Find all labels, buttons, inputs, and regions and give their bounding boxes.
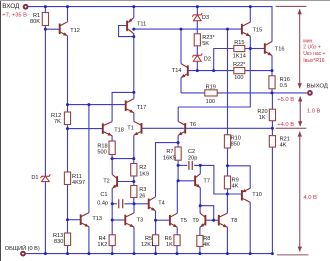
- wire T3 base line: [112, 219, 125, 221]
- node gnd/R8: [198, 252, 201, 255]
- wire R21 top lead: [271, 128, 273, 135]
- transistor T6: [178, 121, 185, 135]
- wire ground rail: [26, 253, 273, 255]
- svg-text:4.0 В: 4.0 В: [303, 195, 317, 201]
- svg-text:1K: 1K: [166, 242, 173, 248]
- wire D2 to T14 base line: [196, 61, 198, 70]
- wire T13 emitter: [88, 227, 90, 254]
- wire T5 collector column: [176, 181, 178, 213]
- wire R12-R11 column: [67, 129, 69, 172]
- dimension reference line top: [276, 5, 307, 7]
- transistor T9: [200, 213, 205, 227]
- svg-text:D2: D2: [204, 56, 211, 62]
- resistor R7: [175, 147, 181, 160]
- svg-text:ОБЩИЙ (0 В): ОБЩИЙ (0 В): [5, 244, 40, 252]
- wire R7 top lead: [177, 143, 179, 147]
- wire T14 emitter: [180, 78, 182, 93]
- node T3b/R4: [111, 219, 114, 222]
- wire base drive line: [134, 28, 242, 30]
- svg-text:1K9: 1K9: [139, 171, 149, 177]
- svg-text:2 Uбэ +: 2 Uбэ +: [303, 45, 321, 51]
- transistor T3: [125, 213, 134, 227]
- wire R6 bottom lead: [176, 246, 178, 254]
- svg-text:T17: T17: [137, 105, 147, 111]
- wire T11 collector column: [133, 33, 135, 92]
- wire R12 bottom lead: [67, 125, 69, 129]
- node gnd/D1: [44, 252, 47, 255]
- transistor T17: [126, 99, 134, 113]
- wire R2-R3 node: [133, 176, 135, 182]
- svg-text:4K97: 4K97: [72, 180, 85, 186]
- svg-text:7K: 7K: [54, 119, 61, 125]
- transistor T14: [181, 64, 188, 78]
- wire T16 base line: [250, 48, 264, 50]
- wire T18 base line: [68, 128, 103, 130]
- wire feedback line T1 base to R20/R21 node: [142, 127, 273, 129]
- node C1r/R3b/T3c/T4b: [133, 202, 136, 205]
- node R1b/T12b/D1: [44, 28, 47, 31]
- svg-text:C1: C1: [100, 192, 107, 198]
- node gnd/T13e: [87, 252, 90, 255]
- capacitor C2: [189, 161, 192, 170]
- wire R3 bottom lead: [133, 198, 135, 204]
- resistor R6: [174, 235, 180, 246]
- wire R13 top lead: [67, 220, 69, 233]
- node C1l/T2e: [111, 202, 114, 205]
- zener diode D2: [192, 53, 202, 61]
- wire C1 left lead: [112, 203, 117, 205]
- node rail/R1: [44, 5, 47, 8]
- svg-text:R19: R19: [206, 85, 216, 91]
- node R18b/T1e/R2t: [132, 157, 135, 160]
- svg-text:R13: R13: [53, 233, 63, 239]
- wire R2 top lead: [133, 159, 135, 164]
- wire T4 emitter jog: [155, 211, 157, 220]
- wire T4 base line: [134, 203, 149, 205]
- svg-text:мин.: мин.: [303, 38, 313, 44]
- wire R21 bottom lead: [271, 147, 273, 254]
- wire T16 emitter: [271, 56, 273, 76]
- resistor R18: [109, 141, 115, 155]
- wire output line right of R19: [217, 92, 307, 94]
- wire R23 to D2: [196, 46, 198, 56]
- zener diode D1: [41, 174, 51, 181]
- svg-text:T9: T9: [192, 218, 199, 224]
- svg-text:R22*: R22*: [233, 62, 246, 68]
- wire R9 top lead: [227, 166, 229, 176]
- transistor T2: [112, 175, 117, 189]
- wire T11 base-collector loop: [119, 26, 134, 37]
- wire T3 emitter: [133, 227, 135, 254]
- svg-text:R15: R15: [234, 40, 244, 46]
- wire T15 collector: [249, 7, 251, 23]
- svg-text:R2: R2: [139, 165, 146, 171]
- wire T2 base line: [117, 181, 134, 183]
- svg-text:T5: T5: [180, 218, 187, 224]
- wire T6 collector column: [177, 107, 179, 121]
- svg-text:500: 500: [97, 149, 106, 155]
- svg-text:80K: 80K: [30, 19, 40, 25]
- wire T5 base line: [156, 219, 170, 221]
- svg-text:1K2: 1K2: [97, 242, 107, 248]
- wire T13 base: [68, 219, 81, 221]
- wire R16 bottom lead: [271, 89, 273, 93]
- node rail/T11e: [132, 5, 135, 8]
- wire T7 collector: [199, 165, 201, 173]
- node T11 b-c tie: [132, 35, 135, 38]
- svg-text:0.4p: 0.4p: [97, 200, 108, 206]
- wire T14 base line: [188, 70, 214, 72]
- svg-text:1.0 В: 1.0 В: [307, 108, 321, 114]
- node C2l/R7: [177, 164, 180, 167]
- wire T9 emitter: [199, 227, 201, 235]
- capacitor C1: [119, 199, 123, 208]
- wire T6 collector to drive node: [178, 36, 250, 107]
- node gnd/T10c: [249, 252, 252, 255]
- dimension arrow (min dropout): [298, 9, 302, 88]
- resistor R11: [64, 172, 70, 185]
- wire drive node down to R10: [227, 29, 229, 135]
- node gnd/T3e: [133, 252, 136, 255]
- wire T12 collector: [67, 7, 69, 22]
- node T13c/T17base: [87, 103, 90, 106]
- wire T14 collector: [180, 29, 182, 64]
- svg-text:16K5: 16K5: [163, 155, 176, 161]
- resistor R13: [64, 233, 70, 246]
- wire output line left of R19: [181, 92, 205, 94]
- svg-text:1K: 1K: [259, 115, 266, 121]
- node R16b/R20t/output: [271, 91, 274, 94]
- wire T17 base line: [68, 104, 126, 106]
- wire T1 emitter: [133, 135, 135, 158]
- svg-text:T15: T15: [253, 27, 263, 33]
- node T6e/R7/T4c: [177, 141, 180, 144]
- node R2b/R3t/T2b: [132, 180, 135, 183]
- node drive/R10: [226, 28, 229, 31]
- svg-text:T12: T12: [70, 28, 80, 34]
- wire T5 emitter: [176, 227, 178, 235]
- node T13b/R11: [66, 218, 69, 221]
- svg-text:D3: D3: [202, 15, 209, 21]
- wire left column to D1: [44, 29, 46, 176]
- output terminal: [307, 90, 313, 96]
- svg-text:0.5: 0.5: [280, 83, 288, 89]
- node R9b/T10b/T8c: [226, 193, 229, 196]
- dimension arrow (4.0 V): [298, 132, 302, 252]
- wire input positive rail: [28, 7, 272, 42]
- wire T6 emitter node to T4 collector: [156, 143, 179, 197]
- node T15e/R15/T16b: [249, 47, 252, 50]
- node gnd/R13: [66, 252, 69, 255]
- svg-text:4K: 4K: [203, 242, 210, 248]
- node drive@T11: [132, 28, 135, 31]
- wire T18 collector branch: [112, 92, 134, 121]
- wire R22 left lead: [214, 70, 234, 72]
- transistor T7: [195, 174, 200, 188]
- node gnd/R21: [271, 252, 274, 255]
- dimension reference line ground: [277, 254, 309, 256]
- resistor R4: [109, 235, 115, 246]
- resistor R2: [131, 164, 137, 177]
- svg-text:T13: T13: [92, 216, 102, 222]
- svg-text:830: 830: [54, 239, 63, 245]
- transistor T15: [242, 22, 250, 36]
- svg-text:T10: T10: [252, 192, 262, 198]
- svg-text:T4: T4: [158, 201, 165, 207]
- wire T8 emitter: [226, 227, 228, 253]
- wire T6 emitter: [177, 135, 179, 142]
- node T12e/R12/T17base: [66, 103, 69, 106]
- wire R15 left lead: [214, 49, 234, 71]
- node R10b/R9t/T10e: [226, 164, 229, 167]
- wire T18 emitter to R18: [111, 136, 113, 141]
- wire R3 top lead: [133, 182, 135, 186]
- wire T11 emitter from rail: [133, 7, 135, 18]
- svg-text:+4.0 В: +4.0 В: [277, 122, 294, 128]
- wire R8 bottom lead: [199, 246, 201, 253]
- svg-text:1K14: 1K14: [233, 53, 246, 59]
- svg-text:20p: 20p: [188, 155, 197, 161]
- svg-text:T16: T16: [275, 47, 285, 53]
- wire mirror base bridge: [200, 206, 214, 221]
- resistor R21: [269, 136, 275, 148]
- resistor R20: [269, 109, 275, 121]
- wire R22 right lead: [245, 70, 272, 72]
- wire R13 bottom lead: [67, 246, 69, 254]
- resistor R15: [234, 45, 245, 51]
- wire C1 right lead: [124, 203, 134, 205]
- wire C2 right lead: [194, 164, 200, 166]
- resistor R19: [205, 90, 217, 96]
- node gnd/R4: [111, 252, 114, 255]
- transistor T1: [134, 121, 142, 135]
- svg-text:4K: 4K: [232, 184, 239, 190]
- svg-text:ВХОД: ВХОД: [2, 3, 20, 10]
- svg-text:D1: D1: [31, 175, 38, 181]
- transistor T18: [103, 122, 112, 136]
- svg-text:T8: T8: [231, 218, 238, 224]
- svg-text:ВЫХОД: ВЫХОД: [307, 83, 328, 89]
- node rail/D3: [196, 5, 199, 8]
- wire R20 bottom lead: [271, 121, 273, 129]
- transistor T13: [81, 213, 89, 227]
- transistor T5: [170, 213, 177, 227]
- wire R12 top lead: [67, 105, 69, 112]
- wire R11 to T13 base node: [67, 185, 69, 220]
- transistor T10 (pnp): [242, 188, 250, 202]
- svg-text:T14: T14: [172, 68, 182, 74]
- node R7b/T7b/T5c: [177, 179, 180, 182]
- input terminal: [23, 4, 29, 10]
- resistor R16: [269, 76, 275, 89]
- transistor T8: [219, 213, 228, 227]
- wire C2 left lead: [178, 164, 187, 166]
- wire T13 collector column: [88, 105, 90, 213]
- svg-text:12K1: 12K1: [141, 242, 154, 248]
- node R18b/T2c: [111, 157, 114, 160]
- svg-text:100: 100: [234, 75, 243, 81]
- resistor R10: [224, 135, 230, 148]
- svg-text:5K: 5K: [202, 41, 209, 47]
- svg-text:T6: T6: [190, 122, 197, 128]
- node T9b/T8b/bridge: [212, 219, 215, 222]
- resistor R3: [131, 186, 137, 198]
- node gnd/R5: [154, 252, 157, 255]
- node rail/T15c: [249, 5, 252, 8]
- wire R4 top lead: [111, 220, 113, 235]
- wire R18 bottom jog: [112, 155, 134, 159]
- node R12b/T18b: [66, 127, 69, 130]
- node T14b/D2: [196, 69, 199, 72]
- wire T2 emitter column: [111, 189, 113, 221]
- transistor T4: [149, 197, 156, 211]
- wire R10/R9 node to T10 emitter: [228, 166, 251, 188]
- svg-text:R3: R3: [139, 187, 146, 193]
- zener diode D3: [192, 13, 202, 21]
- wire R10 bottom lead: [227, 148, 229, 166]
- node T14b/R15/R22: [212, 69, 215, 72]
- svg-text:T3: T3: [137, 218, 144, 224]
- svg-text:+5.0 В: +5.0 В: [277, 97, 294, 103]
- resistor R5: [153, 235, 159, 246]
- dimension reference line +4.0V: [276, 127, 307, 129]
- wire T10 collector: [249, 202, 251, 253]
- wire D3 to R23: [196, 21, 198, 34]
- svg-text:850: 850: [231, 142, 240, 148]
- resistor R23: [194, 34, 200, 46]
- resistor R12: [64, 112, 70, 125]
- svg-text:T2: T2: [103, 178, 110, 184]
- wire R4 bottom lead: [111, 246, 113, 254]
- ground terminal: [20, 251, 26, 257]
- wire R1 top lead: [44, 7, 46, 13]
- wire R9 bottom lead: [227, 189, 229, 194]
- svg-text:T7: T7: [203, 178, 210, 184]
- node gnd/T8e: [226, 252, 229, 255]
- node drive/T14c: [180, 28, 183, 31]
- wire T3 collector: [133, 204, 135, 213]
- node gnd/R6: [176, 252, 179, 255]
- frame top edge: [0, 0, 330, 2]
- wire T7 base line: [178, 180, 195, 182]
- wire R1 bottom lead / T12 base: [45, 26, 59, 30]
- wire R15 right lead: [245, 48, 251, 50]
- resistor R8: [197, 236, 203, 247]
- wire T7 emitter: [199, 188, 201, 206]
- transistor T12: [60, 22, 68, 36]
- transistor T16: [265, 42, 272, 56]
- svg-text:Iвых*R16: Iвых*R16: [303, 58, 324, 64]
- resistor R9: [224, 176, 230, 189]
- node C2r/T7c: [199, 164, 202, 167]
- resistor R1: [42, 13, 48, 26]
- node rail/T12c: [66, 5, 69, 8]
- svg-text:Uкэ нас +: Uкэ нас +: [303, 51, 325, 57]
- wire D1 to ground rail: [44, 182, 46, 254]
- wire T17 emitter to T1 collector: [133, 113, 135, 122]
- wire T8 collector: [226, 194, 228, 213]
- node T7e/T9c: [199, 204, 202, 207]
- svg-text:4K: 4K: [280, 142, 287, 148]
- svg-text:R7: R7: [166, 149, 173, 155]
- wire T9 collector bridge: [199, 206, 201, 214]
- svg-text:+7, +35 В: +7, +35 В: [2, 13, 27, 19]
- svg-text:T1: T1: [127, 126, 134, 132]
- node R20b/R21t/feedback: [271, 127, 274, 130]
- wire T12 emitter column: [67, 36, 69, 105]
- wire rail to D3: [196, 7, 198, 15]
- wire R20 top lead: [271, 93, 273, 109]
- wire T9-T8 base line: [205, 219, 218, 221]
- svg-text:100: 100: [206, 99, 215, 105]
- wire R5 top lead: [155, 220, 157, 235]
- svg-text:C2: C2: [188, 149, 195, 155]
- transistor T11 (pnp, diode-connected): [127, 18, 134, 34]
- svg-text:T11: T11: [137, 21, 146, 27]
- wire C2 node to mirror bases: [200, 165, 242, 194]
- wire R5 bottom lead: [155, 246, 157, 254]
- wire T2 collector column: [111, 159, 113, 175]
- node T4e/T5b/R5: [154, 219, 157, 222]
- frame left edge: [0, 0, 2, 261]
- svg-text:T18: T18: [114, 128, 124, 134]
- wire R7 bottom lead: [177, 160, 179, 181]
- dimension arrow (1.0 V): [298, 97, 302, 127]
- resistor R22: [234, 68, 245, 74]
- wire T17 collector: [133, 92, 135, 98]
- node R22/T16e: [271, 69, 274, 72]
- node T17c/T18c: [132, 91, 135, 94]
- svg-text:26: 26: [139, 193, 145, 199]
